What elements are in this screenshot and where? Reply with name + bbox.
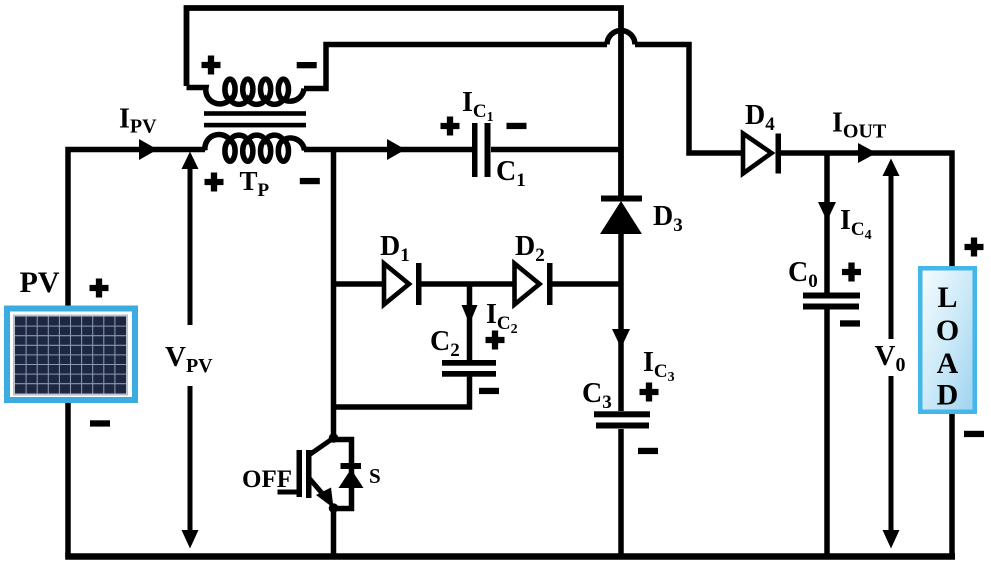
wire switch branch vertical xyxy=(331,150,337,435)
node dot top xyxy=(329,433,339,443)
label minus LOAD xyxy=(964,431,984,437)
label minus secondary xyxy=(297,62,317,68)
capacitor C1 plates xyxy=(472,123,478,177)
LOAD block xyxy=(918,266,977,414)
wire secondary minus terminal to D4 row with crossover xyxy=(304,45,607,89)
label plus secondary xyxy=(202,56,221,75)
label plus PV xyxy=(90,279,109,298)
arrow IPV current xyxy=(139,139,158,160)
arrow IC2 head xyxy=(462,305,478,324)
wire top loop from secondary plus terminal to D3 branch xyxy=(187,8,622,196)
wire left vertical from PV node to bottom xyxy=(68,150,205,558)
label plus primary xyxy=(205,173,224,192)
wire switch branch to D1 anode xyxy=(334,281,385,287)
PV module xyxy=(4,306,138,404)
IGBT gate bar xyxy=(297,450,303,497)
wire C0 branch top xyxy=(824,153,830,293)
svg-text:A: A xyxy=(937,347,959,380)
wire C0 branch bottom to rail xyxy=(824,309,830,557)
switch S IGBT with antiparallel diode xyxy=(278,433,364,513)
wire bottom rail xyxy=(65,553,955,560)
label minus C2 xyxy=(479,388,499,394)
IGBT gate lead xyxy=(278,490,298,495)
diode D1 xyxy=(384,263,422,305)
label plus C2 xyxy=(486,331,505,350)
arrow VPV indicator xyxy=(182,152,199,549)
svg-text:S: S xyxy=(369,464,381,488)
arrow IC3 head xyxy=(612,329,630,348)
wire D1 cathode to D2 anode via node C2 xyxy=(422,281,515,287)
wire D2 cathode to node x=621 xyxy=(553,281,622,287)
label plus C3 xyxy=(640,383,659,402)
wire switch bottom to rail xyxy=(331,508,337,557)
arrow IC4 head xyxy=(818,202,836,221)
wire main horizontal from primary coil to C1 xyxy=(304,147,472,153)
arrow V0 indicator xyxy=(883,159,900,549)
svg-text:OFF: OFF xyxy=(242,466,292,493)
transformer TP primary winding xyxy=(205,134,305,161)
capacitor C0 plates xyxy=(803,293,860,299)
svg-text:O: O xyxy=(936,314,959,347)
transformer TP core xyxy=(204,111,306,116)
label minus C0 xyxy=(840,320,860,326)
capacitor C2 plates xyxy=(442,360,496,366)
label plus LOAD xyxy=(965,238,984,257)
label plus C1 xyxy=(441,117,460,136)
wire from C1 to node x=621 xyxy=(491,147,621,153)
diode D3 filled vertical xyxy=(600,196,642,235)
wire right branch of switch xyxy=(334,440,352,509)
arrow into C1 xyxy=(387,139,406,160)
label minus PV xyxy=(90,420,110,426)
svg-text:D: D xyxy=(937,379,959,412)
wire hop over node xyxy=(607,31,635,45)
wire D4 cathode to load corner xyxy=(781,153,952,557)
node dot bottom xyxy=(329,503,339,513)
IGBT body bar xyxy=(306,450,312,498)
diode S antiparallel xyxy=(341,463,362,469)
IGBT emitter lead xyxy=(309,478,327,499)
label minus primary xyxy=(300,178,320,184)
label plus C0 xyxy=(842,263,861,282)
diode D2 xyxy=(515,263,553,305)
wire below C3 to bottom rail xyxy=(618,429,624,557)
svg-text:PV: PV xyxy=(20,266,60,299)
wire from hop to D4 anode xyxy=(635,45,743,154)
wire node x=621 from D3 anode through C3 top xyxy=(618,234,624,411)
wire C2 branch down from D1-D2 junction xyxy=(467,284,473,360)
IGBT collector lead xyxy=(309,438,334,455)
wire C2 bottom return to switch branch xyxy=(334,377,470,408)
transformer TP secondary winding xyxy=(187,79,305,104)
svg-text:L: L xyxy=(937,281,957,314)
arrow IOUT current xyxy=(858,143,877,163)
diode D4 xyxy=(743,134,781,174)
label minus C3 xyxy=(638,448,658,454)
label minus C1 xyxy=(507,123,527,129)
capacitor C3 plates xyxy=(594,411,650,417)
